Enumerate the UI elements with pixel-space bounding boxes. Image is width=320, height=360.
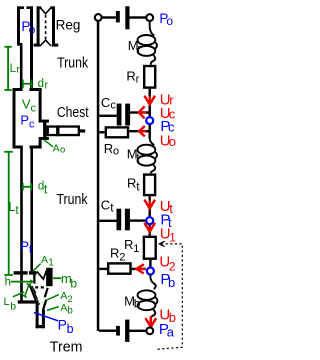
svg-text:a: a bbox=[167, 324, 175, 339]
label Uc bbox=[160, 105, 176, 122]
wire Pc node down bbox=[149, 125, 151, 139]
trunk lower left wall bbox=[20, 146, 23, 301]
label Pa bbox=[159, 321, 175, 339]
svg-text:r: r bbox=[137, 43, 141, 55]
Reg channel left wall bbox=[34, 6, 42, 46]
Ao stub lower bbox=[39, 137, 49, 140]
chest right wall upper bbox=[39, 88, 42, 123]
svg-text:C: C bbox=[101, 95, 110, 110]
label dr bbox=[38, 78, 49, 91]
arrow Ub bbox=[146, 316, 157, 327]
label Ur bbox=[160, 91, 174, 108]
svg-text:R: R bbox=[126, 69, 135, 84]
Ao rod bbox=[80, 129, 85, 132]
svg-text:c: c bbox=[110, 99, 116, 111]
chest right wall lower bbox=[39, 140, 42, 149]
label U2 bbox=[159, 253, 176, 273]
mb pointer bbox=[53, 277, 61, 279]
terminal node left bbox=[95, 14, 102, 21]
svg-text:o: o bbox=[169, 134, 176, 149]
capacitor Cc plates bbox=[117, 104, 122, 126]
trunk lower right wall bbox=[30, 146, 33, 272]
funnel right wall mid bbox=[43, 300, 46, 317]
bracket Lb slanted bbox=[22, 283, 30, 297]
wire Cc to vertical bbox=[130, 111, 149, 113]
wire rail to Cc bbox=[99, 115, 116, 117]
bore left wall bbox=[36, 300, 39, 328]
svg-text:b: b bbox=[168, 275, 175, 290]
svg-text:o: o bbox=[60, 145, 65, 156]
svg-text:A: A bbox=[60, 290, 67, 302]
label Ub bbox=[159, 307, 176, 326]
arrow Uc bbox=[139, 106, 147, 118]
svg-text:2: 2 bbox=[119, 252, 125, 264]
svg-text:t: t bbox=[44, 182, 48, 196]
lips V notch bbox=[37, 271, 46, 280]
svg-text:b: b bbox=[134, 297, 141, 311]
label Rt bbox=[127, 176, 140, 194]
Ao piston head bbox=[56, 125, 59, 136]
svg-text:L: L bbox=[8, 200, 15, 214]
mouth tube left wall with caps bbox=[17, 6, 24, 45]
capacitor Ct plates bbox=[117, 209, 122, 231]
label Ro bbox=[104, 141, 119, 158]
label A1 with pointer bbox=[31, 264, 41, 274]
svg-text:1: 1 bbox=[48, 257, 54, 268]
inductor Mb bbox=[138, 275, 158, 318]
Reg channel right wall bbox=[50, 6, 58, 46]
node Po label (tube) bbox=[21, 19, 35, 36]
svg-text:Trunk: Trunk bbox=[57, 191, 88, 207]
bore entrance dashes bbox=[38, 302, 43, 304]
funnel hatch 2 bbox=[35, 294, 37, 298]
Trem label bbox=[50, 339, 83, 355]
svg-text:c: c bbox=[31, 102, 37, 114]
svg-text:b: b bbox=[67, 322, 74, 336]
svg-text:b: b bbox=[70, 276, 77, 290]
label R1 bbox=[124, 237, 139, 255]
trunk upper left wall bbox=[20, 44, 23, 92]
Ao syringe barrel bbox=[48, 127, 79, 136]
node Pa terminal bbox=[146, 327, 153, 334]
node Pc bbox=[146, 117, 153, 124]
Trunk label upper bbox=[57, 54, 88, 70]
svg-text:b: b bbox=[169, 310, 176, 325]
svg-text:1: 1 bbox=[169, 230, 176, 244]
Trunk label lower bbox=[57, 191, 88, 207]
wire Ct to Pt node bbox=[130, 219, 149, 221]
wire rail to Ro bbox=[99, 131, 104, 133]
resistor R1 bbox=[144, 237, 156, 259]
mouth tube right wall with cap bbox=[27, 6, 34, 91]
resistor Rr bbox=[144, 66, 155, 88]
label Mt bbox=[127, 147, 141, 165]
wire Rr to Pc node bbox=[149, 89, 151, 117]
bottom capacitor small plate bbox=[116, 326, 120, 336]
Reg dashed centerline bbox=[45, 15, 47, 40]
label Mr bbox=[128, 38, 142, 55]
bottom capacitor tall plate bbox=[125, 320, 129, 342]
resistor R2 bbox=[108, 263, 130, 273]
measure dr bbox=[23, 80, 32, 89]
svg-text:c: c bbox=[29, 119, 35, 131]
svg-text:Chest: Chest bbox=[57, 104, 89, 120]
label mb bbox=[61, 271, 78, 290]
label Mb bbox=[124, 293, 141, 310]
Pb pointer bbox=[34, 312, 58, 320]
wire R1 to U2 node bbox=[149, 260, 151, 268]
label Pt (circuit) bbox=[160, 212, 172, 230]
svg-text:R: R bbox=[127, 176, 136, 191]
svg-text:R: R bbox=[124, 237, 133, 252]
bracket Lt bbox=[4, 152, 13, 275]
node Po terminal bbox=[146, 14, 153, 21]
label Pt (trunk) bbox=[20, 239, 33, 257]
source capacitor small plate bbox=[116, 11, 120, 22]
svg-text:o: o bbox=[166, 14, 173, 28]
arrow Ut bbox=[144, 200, 155, 209]
svg-text:P: P bbox=[20, 239, 29, 254]
measure h arrow bbox=[11, 279, 35, 283]
label Lr bbox=[10, 63, 21, 75]
wire Ro to vertical bbox=[129, 130, 148, 132]
lip slit wall bbox=[33, 275, 35, 284]
measure dt bbox=[23, 183, 32, 191]
wire R2 to U2 node bbox=[132, 268, 146, 270]
chest box top shoulders bbox=[13, 88, 22, 91]
mass mb block bbox=[46, 268, 53, 286]
Reg funnel top V bbox=[41, 8, 51, 13]
label Uo bbox=[160, 133, 176, 150]
label Lt bbox=[8, 200, 19, 217]
label A2 bbox=[60, 290, 72, 305]
funnel right wall upper bbox=[45, 288, 48, 297]
Ao piston flange bbox=[43, 123, 46, 140]
Lb pointer bbox=[13, 292, 24, 297]
label Ct bbox=[101, 198, 115, 215]
trunk foot left bbox=[14, 271, 28, 274]
svg-text:A: A bbox=[53, 142, 60, 154]
svg-text:L: L bbox=[4, 296, 10, 308]
svg-text:R: R bbox=[104, 141, 113, 156]
wire Pt to R1 bbox=[149, 225, 151, 236]
node Pt bbox=[146, 217, 153, 224]
label Lb bbox=[4, 296, 17, 312]
svg-text:r: r bbox=[136, 73, 140, 85]
label Po (circuit) bbox=[159, 11, 173, 28]
chest left wall bbox=[13, 88, 16, 149]
funnel left wall inner bbox=[32, 286, 38, 300]
label Ut bbox=[160, 198, 173, 216]
Ao pointer bbox=[44, 140, 53, 147]
svg-text:2: 2 bbox=[67, 294, 72, 305]
wire Rt to Pt node bbox=[149, 196, 151, 217]
chest bottom shoulders bbox=[13, 146, 22, 149]
svg-text:r: r bbox=[44, 79, 48, 91]
label Pc (chest) bbox=[20, 113, 35, 131]
svg-text:b: b bbox=[10, 300, 16, 312]
bore right wall bbox=[42, 310, 45, 328]
wire Pa to capacitor bbox=[129, 330, 146, 332]
wire top left bbox=[102, 16, 116, 18]
svg-text:P: P bbox=[58, 316, 67, 332]
svg-text:Reg: Reg bbox=[56, 18, 81, 33]
svg-text:o: o bbox=[29, 22, 36, 36]
label Vc bbox=[22, 97, 37, 115]
arrow Ur bbox=[144, 96, 155, 105]
funnel hatch 1 bbox=[34, 289, 36, 294]
svg-text:Trunk: Trunk bbox=[57, 54, 88, 70]
label Cc bbox=[101, 95, 117, 112]
svg-text:h: h bbox=[5, 276, 11, 288]
wire top right bbox=[130, 16, 146, 18]
mouthpiece shelf bbox=[18, 300, 36, 303]
A2 pointer bbox=[47, 295, 59, 300]
svg-text:o: o bbox=[113, 146, 119, 158]
resistor Rt bbox=[144, 175, 155, 196]
label Pb (circuit) bbox=[160, 271, 175, 290]
label U1 bbox=[160, 225, 177, 244]
Chest label bbox=[57, 104, 89, 120]
bore bottom bbox=[36, 325, 45, 328]
Reg funnel bottom V bbox=[40, 40, 51, 46]
node U2 Pb bbox=[147, 268, 154, 275]
resistor Ro bbox=[106, 127, 128, 137]
svg-text:A: A bbox=[41, 254, 48, 266]
label Ao bbox=[53, 142, 66, 155]
svg-text:P: P bbox=[20, 113, 29, 128]
svg-text:1: 1 bbox=[133, 243, 139, 255]
dashed feedback path bbox=[156, 241, 182, 349]
bracket Lr bbox=[4, 47, 11, 90]
label R2 bbox=[110, 246, 125, 264]
svg-text:Trem: Trem bbox=[50, 339, 83, 355]
source capacitor tall plate bbox=[125, 6, 129, 29]
wire rail to Ct bbox=[99, 220, 116, 222]
wire bottom left bbox=[99, 330, 116, 332]
Ab pointer bbox=[47, 307, 59, 311]
arrow Uo bbox=[139, 126, 146, 136]
inductor Mt bbox=[138, 138, 157, 174]
arrow U2 bbox=[136, 264, 145, 273]
svg-text:r: r bbox=[16, 63, 20, 75]
label dt bbox=[38, 180, 48, 196]
label Rr bbox=[126, 69, 139, 86]
inductor Mr bbox=[138, 21, 157, 65]
funnel left wall bbox=[29, 284, 36, 301]
arrow U1 bbox=[144, 223, 155, 232]
wire rail to R2 bbox=[99, 268, 107, 270]
trunk foot right bbox=[29, 271, 37, 274]
svg-text:R: R bbox=[110, 246, 119, 261]
wire left rail bbox=[97, 21, 100, 331]
svg-text:b: b bbox=[67, 306, 73, 317]
lip opening dashed bbox=[35, 286, 46, 288]
label Pc (circuit) bbox=[160, 118, 175, 135]
svg-text:C: C bbox=[101, 198, 110, 213]
Ao opening stub upper bbox=[39, 120, 49, 123]
label Pb (bore) bbox=[58, 316, 74, 336]
label Ab bbox=[60, 302, 73, 317]
